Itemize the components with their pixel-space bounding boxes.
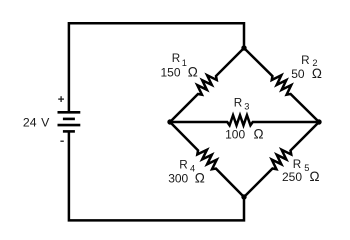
svg-text:Ω: Ω: [195, 171, 205, 186]
svg-text:150: 150: [161, 66, 181, 80]
svg-text:50: 50: [291, 67, 305, 81]
svg-text:250: 250: [282, 170, 302, 184]
svg-text:Ω: Ω: [310, 169, 320, 184]
svg-text:R3: R3: [234, 96, 250, 111]
svg-text:Ω: Ω: [254, 127, 264, 142]
svg-text:100: 100: [225, 128, 245, 142]
svg-text:Ω: Ω: [188, 65, 198, 80]
svg-text:24 V: 24 V: [23, 116, 50, 130]
svg-text:300: 300: [168, 172, 188, 186]
svg-text:Ω: Ω: [312, 66, 322, 81]
